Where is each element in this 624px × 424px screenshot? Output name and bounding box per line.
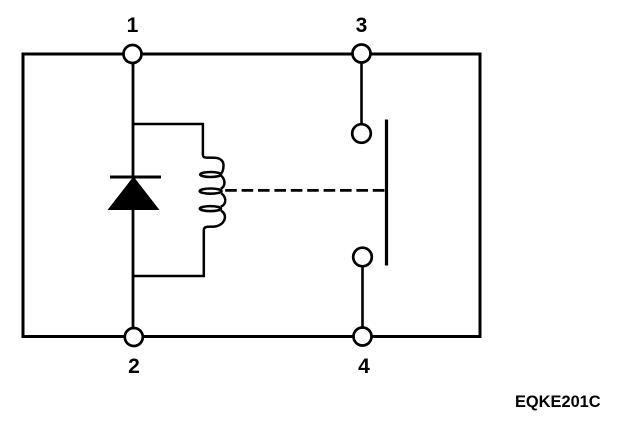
svg-text:1: 1	[127, 14, 139, 37]
svg-text:2: 2	[128, 355, 140, 378]
svg-text:EQKE201C: EQKE201C	[515, 393, 601, 411]
svg-text:3: 3	[356, 14, 368, 37]
svg-text:4: 4	[358, 355, 370, 378]
